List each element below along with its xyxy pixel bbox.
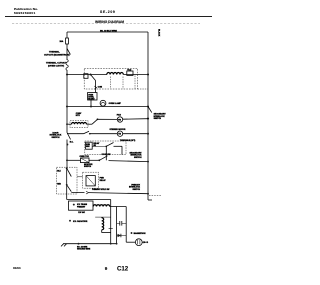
svg-text:H.V. CAPACITOR: H.V. CAPACITOR — [73, 220, 88, 223]
svg-text:120 VAC: 120 VAC — [78, 211, 86, 214]
switch on left bus (thermal cutout contact) — [67, 49, 70, 55]
svg-text:BLACK: BLACK — [158, 29, 161, 37]
connector arrow — [94, 86, 96, 89]
title WIRING DIAGRAM — [95, 20, 124, 24]
svg-text:THERMAL: THERMAL — [49, 50, 60, 53]
svg-text:OVEN TCO: OVEN TCO — [80, 156, 90, 158]
wire down to connector — [95, 81, 97, 93]
label: primary interlock (right) — [129, 183, 141, 190]
timer switch — [105, 145, 107, 147]
svg-text:01/04: 01/04 — [13, 266, 21, 270]
left bus — [66, 32, 68, 38]
node on rung1 — [89, 73, 91, 75]
svg-text:WIRING DIAGRAM: WIRING DIAGRAM — [95, 20, 124, 24]
chassis ground label — [77, 246, 91, 250]
label secondary interlock — [129, 151, 142, 158]
node rung1 right — [147, 73, 149, 75]
fan motor FM — [117, 117, 122, 122]
svg-text:RED: RED — [57, 183, 61, 185]
svg-text:GROUND WIRE: GROUND WIRE — [77, 249, 91, 251]
rung 2: oven lamp line — [67, 106, 148, 108]
magnetron antenna — [142, 241, 146, 243]
svg-text:SWITCH: SWITCH — [154, 118, 162, 120]
dashed underline row — [12, 23, 200, 25]
dashed timer box — [85, 141, 126, 155]
rung 3: fan motor line — [123, 118, 148, 121]
transformer secondary coil — [102, 218, 104, 230]
oven lamp — [100, 100, 106, 106]
right bus — [147, 32, 149, 194]
label: oven thermal cutout — [46, 62, 67, 68]
svg-text:TURNTABLE (OPT): TURNTABLE (OPT) — [120, 139, 136, 142]
dashed internal leads of relay box — [110, 77, 112, 89]
vertical wire label BLACK — [158, 29, 161, 37]
wire label on top rail — [100, 30, 117, 32]
svg-text:SE-209: SE-209 — [100, 10, 116, 14]
heater coil on fan feed — [72, 122, 87, 124]
svg-text:SWITCH: SWITCH — [52, 137, 60, 139]
svg-text:PRIMARY INTLK SW: PRIMARY INTLK SW — [92, 188, 110, 191]
vertical drops — [116, 207, 118, 244]
control box with label — [88, 93, 97, 101]
switch on left bus (door interlock) — [67, 133, 71, 140]
HV capacitor bullet label — [69, 220, 71, 222]
svg-text:SEN: SEN — [86, 146, 90, 148]
magnetron tube — [126, 241, 135, 243]
fan relay switch — [92, 119, 98, 124]
svg-text:CUTOUT (MAGNETRON): CUTOUT (MAGNETRON) — [44, 53, 70, 56]
relay switch arm — [91, 75, 96, 81]
fuse F1 — [66, 38, 69, 44]
rung 5: TCO line — [67, 159, 81, 161]
relay contact 1 — [67, 168, 72, 176]
TCO box on rung1 — [127, 71, 133, 75]
rung 4: stirrer motor line — [67, 133, 84, 135]
footer — [13, 265, 129, 272]
relay contact 2 — [67, 185, 72, 192]
wire from relay box down to transformer — [66, 194, 68, 200]
rung 1: relay heater line — [67, 74, 107, 76]
svg-text:20A: 20A — [60, 40, 64, 43]
HV capacitor C1 — [117, 222, 120, 224]
svg-text:BOARD: BOARD — [88, 97, 95, 100]
node: left bus / rung1 junction — [66, 73, 68, 75]
svg-text:THERMAL CUTOUT: THERMAL CUTOUT — [46, 62, 67, 65]
node right bus / fan rung — [147, 118, 149, 120]
svg-text:FAN: FAN — [117, 114, 122, 117]
rung 6: to right bus — [71, 191, 84, 193]
label above heater coil — [76, 113, 82, 117]
dashed relay coil enclosure — [83, 172, 99, 188]
interlock switch on right bus — [148, 107, 152, 113]
svg-text:9: 9 — [105, 266, 108, 271]
wire from control box to rung2 — [90, 100, 92, 107]
svg-text:SWITCH: SWITCH — [133, 189, 141, 191]
dashed power relay box — [57, 167, 78, 194]
svg-text:PRIMARY: PRIMARY — [77, 206, 86, 209]
relay coil L1 — [107, 73, 124, 75]
svg-text:5995269801: 5995269801 — [14, 11, 36, 15]
transformer primary coil T1 — [93, 205, 110, 207]
svg-text:TCO: TCO — [127, 70, 132, 72]
link to relay coil box — [77, 176, 83, 178]
svg-text:(OVEN CAVITY): (OVEN CAVITY) — [48, 64, 64, 67]
svg-text:BLK: BLK — [57, 171, 61, 173]
header rule — [5, 16, 212, 18]
svg-text:RELAY: RELAY — [100, 179, 107, 182]
timer block — [86, 142, 93, 149]
bottom rail — [63, 243, 117, 245]
thermal element squiggle on bus — [66, 60, 68, 71]
transformer label box — [69, 201, 94, 210]
svg-text:COOK SW: COOK SW — [102, 154, 111, 156]
dashed relay enclosure — [84, 68, 137, 89]
svg-text:OVEN LAMP: OVEN LAMP — [109, 102, 122, 105]
svg-text:FM: FM — [118, 119, 121, 121]
svg-text:NO. 18 BLK WIRE: NO. 18 BLK WIRE — [100, 30, 117, 32]
stirrer motor TM — [117, 131, 122, 136]
svg-text:TM: TM — [118, 134, 121, 136]
svg-text:HTR: HTR — [76, 115, 81, 117]
oven TCO box — [81, 158, 90, 163]
svg-text:COM: COM — [98, 86, 103, 88]
secondary top lead — [95, 216, 111, 218]
relay coil block — [86, 176, 95, 186]
label: magnetron thermal cutout — [44, 50, 70, 56]
switch — [99, 156, 107, 161]
svg-text:C12: C12 — [117, 265, 129, 272]
top rail — [67, 31, 148, 33]
svg-text:STIRRER MOTOR: STIRRER MOTOR — [110, 129, 126, 131]
svg-text:SWITCH: SWITCH — [134, 157, 142, 159]
dashed box around heater coil — [70, 121, 88, 128]
terminal box on rung1 — [84, 74, 88, 79]
HV diode D1 — [118, 234, 121, 237]
svg-text:MAGNETRON: MAGNETRON — [134, 232, 146, 235]
monitor switch label — [84, 164, 93, 168]
svg-text:N.C.: N.C. — [70, 141, 74, 143]
svg-text:SWITCH: SWITCH — [84, 166, 92, 168]
header publication text — [14, 7, 116, 15]
magnetron bullet label — [131, 232, 133, 234]
